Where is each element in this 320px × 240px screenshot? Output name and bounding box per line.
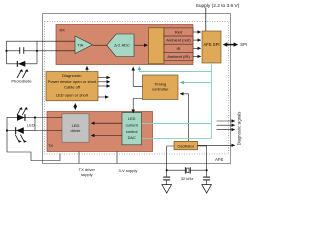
svg-text:Ambient (red): Ambient (red) <box>166 38 191 43</box>
node dot crystal right <box>206 169 208 171</box>
diagnostic output arrow 4 <box>98 96 109 98</box>
wire LED to driver top <box>35 117 62 119</box>
svg-text:driver: driver <box>70 128 81 133</box>
node dot bottom left <box>6 129 8 131</box>
register row Ambient (red) <box>164 36 193 44</box>
light arrows into photodiode <box>17 70 27 78</box>
arrow Red to SPI <box>193 31 201 33</box>
photodiode top rail <box>7 41 38 51</box>
arrow DAC to driver upper <box>91 122 122 124</box>
wire oscillator to timing <box>180 94 188 142</box>
svg-text:Red: Red <box>175 30 182 35</box>
diagnostic signal arrow 3 <box>217 129 235 131</box>
ground right <box>202 185 212 193</box>
diagnostic signal arrow 2 <box>217 124 235 126</box>
TX block <box>47 112 153 152</box>
diagnostic output arrow 2 <box>98 81 110 83</box>
svg-text:32 kHz: 32 kHz <box>181 176 193 181</box>
svg-text:IR: IR <box>177 46 181 51</box>
crystal X1 <box>185 167 191 174</box>
arrow Ambient IR to SPI <box>193 55 201 57</box>
svg-text:Oscillator: Oscillator <box>177 144 194 149</box>
LED current control DAC <box>122 113 142 145</box>
teal branch to ADC <box>139 67 211 72</box>
svg-text:SPI: SPI <box>240 42 247 47</box>
LED light arrows down <box>15 135 24 142</box>
cap C2 <box>163 170 170 184</box>
svg-text:control: control <box>126 129 138 134</box>
teal branch to DAC upper <box>142 123 212 125</box>
wire ADC to buffer <box>135 44 148 46</box>
oscillator clock output arrow <box>198 144 235 146</box>
svg-text:supply: supply <box>81 172 93 177</box>
buffer block <box>149 28 165 64</box>
svg-text:LED: LED <box>27 122 35 127</box>
RX block <box>56 25 193 65</box>
svg-text:3-V supply: 3-V supply <box>119 168 138 173</box>
svg-text:LED: LED <box>128 116 136 121</box>
svg-text:AFE: AFE <box>215 157 223 162</box>
photodiode cap row wire <box>7 50 38 52</box>
arrow DAC to driver lower <box>91 135 122 137</box>
photodiode loop verticals <box>6 51 8 64</box>
wire timing to LED DAC <box>133 99 142 114</box>
svg-text:Diagnostic:: Diagnostic: <box>62 73 82 78</box>
arrow diagnostics to RX <box>86 66 88 71</box>
wire timing to RX sample <box>133 67 142 86</box>
3V supply stub <box>116 152 118 164</box>
LED light arrows up <box>17 108 26 115</box>
outer supply box <box>43 14 231 164</box>
svg-text:Diagnostic signals: Diagnostic signals <box>237 112 242 146</box>
svg-text:Supply (2.2 to 3.6 V): Supply (2.2 to 3.6 V) <box>196 3 240 9</box>
svg-text:AFE SPI: AFE SPI <box>203 42 219 47</box>
TIA U1 <box>75 36 93 54</box>
node dot right <box>36 50 38 52</box>
wire LED to driver bottom <box>35 130 62 132</box>
node dot top right <box>34 116 36 118</box>
arrow Ambient red to SPI <box>193 39 201 41</box>
delta-sigma ADC <box>107 34 134 57</box>
ground left <box>162 185 172 193</box>
svg-text:DAC: DAC <box>128 135 136 140</box>
node dot crystal left <box>166 169 168 171</box>
capacitor C1 <box>19 47 20 54</box>
svg-text:controller: controller <box>152 86 169 91</box>
supply wire <box>205 8 207 32</box>
AFE chip dotted boundary <box>45 22 229 155</box>
arrow TX-diagnostics bidirectional <box>74 103 76 109</box>
LED D2 (top, red) <box>17 114 25 121</box>
oscillator block <box>174 141 198 150</box>
diagnostic signal arrow 1 <box>217 120 235 122</box>
wire TIA to ADC <box>93 44 107 46</box>
svg-text:LED open or short: LED open or short <box>56 93 89 98</box>
svg-text:TIA: TIA <box>77 44 83 48</box>
SPI clock net teal trunk <box>210 63 212 139</box>
diagnostic output arrow 1 <box>98 77 110 79</box>
svg-text:Power device open or short: Power device open or short <box>48 79 98 84</box>
LED return wire to TX <box>7 131 60 161</box>
timing controller <box>143 75 179 100</box>
wire photodiode to TIA upper <box>37 40 75 42</box>
crystal wire <box>167 169 207 171</box>
LED D3 (bottom, IR) <box>16 127 24 134</box>
register row Ambient (IR) <box>164 52 193 60</box>
SPI bidirectional bus <box>226 44 235 46</box>
diagnostic output arrow 3 <box>98 85 110 87</box>
TX driver supply stub <box>78 152 80 164</box>
svg-text:RX: RX <box>60 27 66 32</box>
crystal left lead <box>167 146 174 170</box>
arrow IR to SPI <box>193 47 201 49</box>
svg-text:current: current <box>126 122 139 127</box>
wire photodiode to TIA lower <box>37 50 75 52</box>
register row Red <box>164 28 193 36</box>
svg-text:Cable off: Cable off <box>64 84 81 89</box>
svg-text:TX: TX <box>48 143 53 148</box>
svg-text:Δ-Σ ADC: Δ-Σ ADC <box>114 43 130 48</box>
photodiode D1 <box>18 61 25 67</box>
photodiode row wire <box>7 63 38 65</box>
register row IR <box>164 44 193 52</box>
cap C3 <box>203 170 210 184</box>
teal branch to timing controller <box>180 82 211 84</box>
node dot left <box>5 50 7 52</box>
diagnostics block <box>46 72 98 101</box>
teal branch to DAC lower <box>142 138 212 140</box>
LED pair loop <box>7 118 35 131</box>
svg-text:Photodiode: Photodiode <box>11 79 32 84</box>
AFE SPI block <box>202 31 221 63</box>
svg-text:Ambient (IR): Ambient (IR) <box>167 54 190 59</box>
crystal right lead <box>198 146 207 170</box>
LED driver <box>62 114 89 142</box>
